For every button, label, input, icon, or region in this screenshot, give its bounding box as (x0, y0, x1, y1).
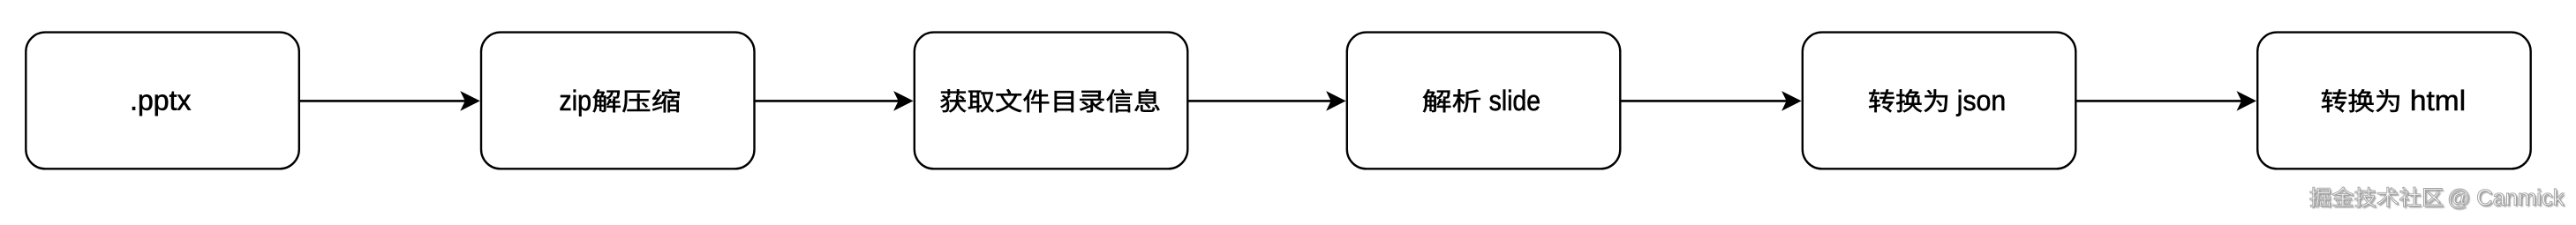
connector arrow 5: head (2237, 91, 2257, 111)
watermark shadow piece 2 (2451, 191, 2565, 210)
process box 1 ".pptx" (26, 33, 299, 169)
connector arrow 3: wire (1187, 100, 1335, 102)
label text piece 1 of box 6 (2322, 89, 2399, 112)
label text piece 1 of box 1 (132, 92, 191, 116)
watermark face piece 2 "掘金技术社区 @ Canmick" (2449, 189, 2564, 208)
label text piece 2 of box 6 (2412, 90, 2464, 111)
process box 3 "获取文件目录信息" (915, 33, 1188, 169)
label text piece 2 of box 5 (1956, 90, 2004, 116)
connector arrow 4: head (1781, 91, 1802, 111)
label text piece 2 of box 4 (1489, 90, 1539, 111)
label text piece 1 of box 2 (561, 90, 591, 116)
connector arrow 4: wire (1620, 100, 1790, 102)
label text piece 1 of box 3 (940, 89, 1159, 112)
connector arrow 1: head (460, 91, 480, 111)
process box 6 "转换为 html" (2257, 33, 2531, 169)
connector arrow 2: head (893, 91, 914, 111)
label text piece 1 of box 4 (1423, 89, 1480, 112)
connector arrow 3: head (1326, 91, 1346, 111)
connector arrow 2: wire (755, 100, 903, 102)
label text piece 1 of box 5 (1869, 89, 1947, 112)
connector arrow 1: wire (299, 100, 470, 102)
watermark shadow piece 1 (2311, 189, 2444, 209)
connector arrow 5: wire (2075, 100, 2246, 102)
process box 4 "解析 slide" (1347, 33, 1621, 169)
watermark face piece 1 "掘金技术社区 @ Canmick" (2309, 187, 2443, 207)
process box 2 "zip解压缩" (481, 33, 755, 169)
label text piece 2 of box 2 (593, 89, 680, 112)
process box 5 "转换为 json" (1803, 33, 2076, 169)
